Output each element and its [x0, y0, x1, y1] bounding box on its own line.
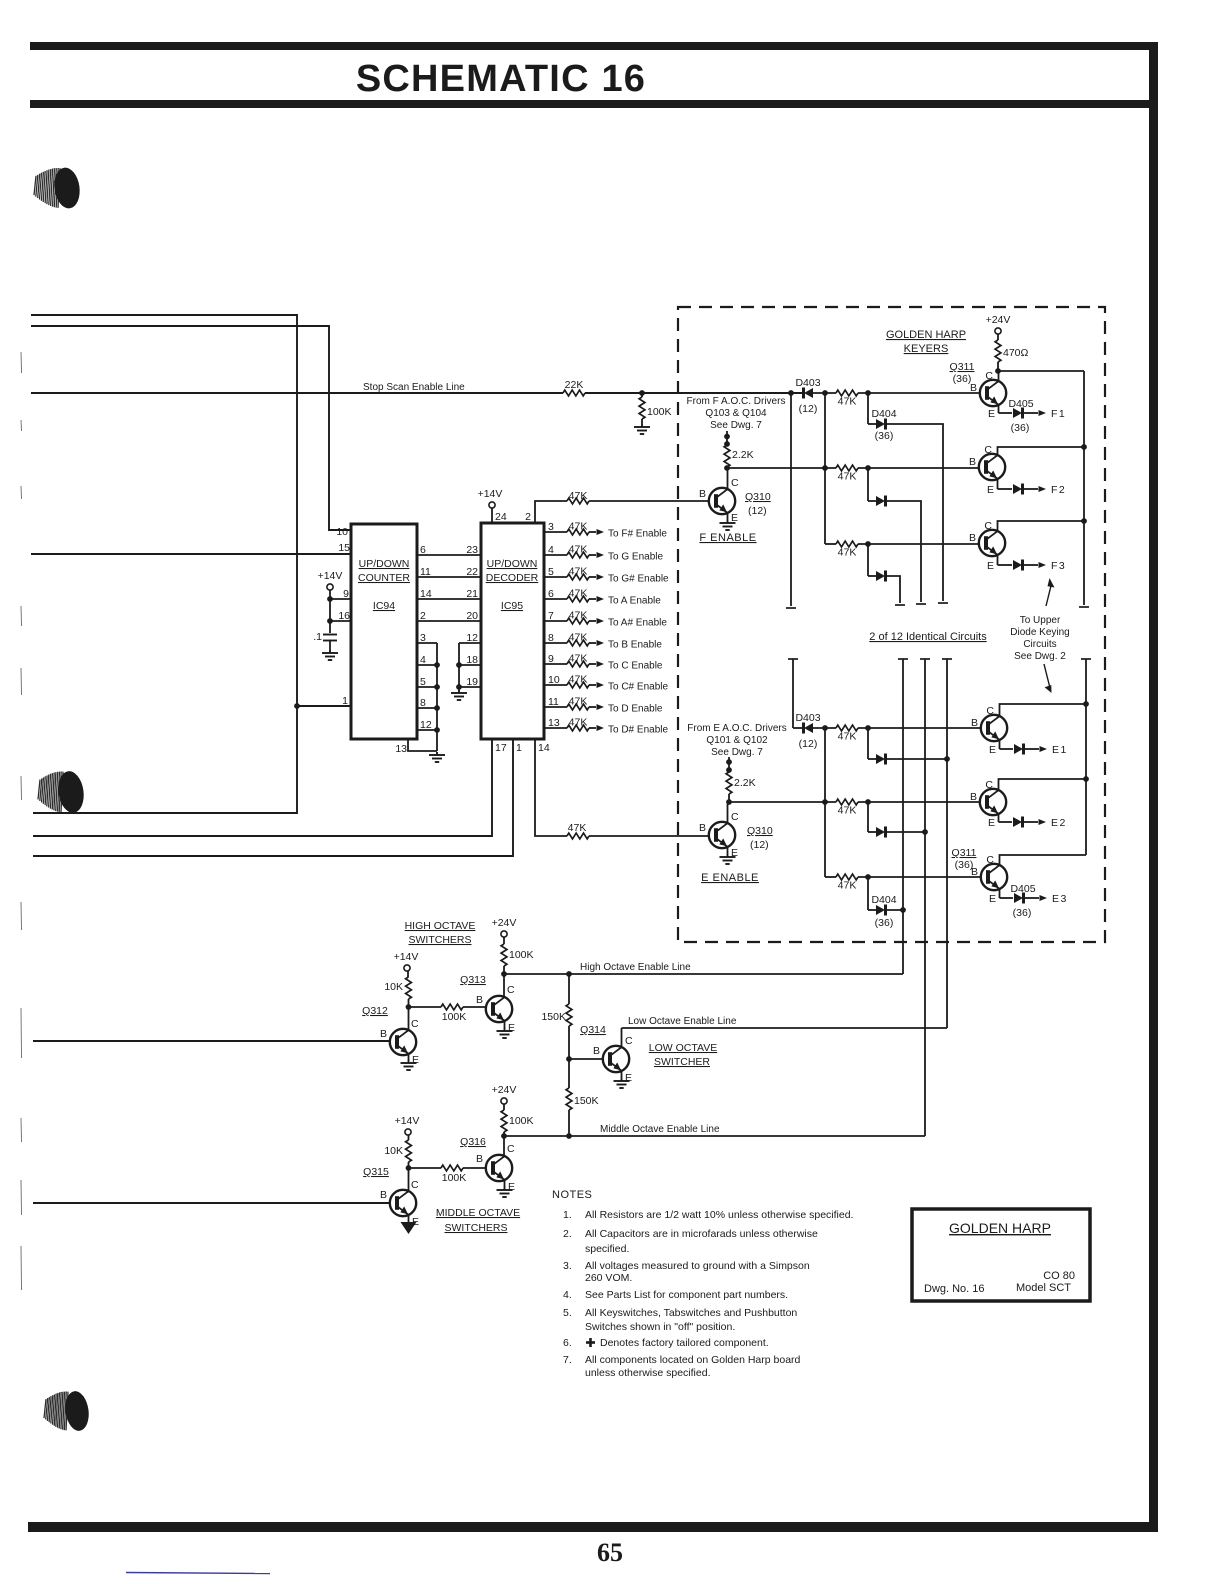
svg-text:47K: 47K — [569, 653, 588, 665]
node junction E1 collector on bus — [1083, 701, 1089, 707]
svg-text:Diode Keying: Diode Keying — [1010, 627, 1069, 638]
svg-text:1: 1 — [516, 742, 522, 754]
svg-text:E: E — [988, 408, 995, 420]
+14V supply at IC95 pin 24 — [478, 488, 507, 523]
node junction 150K top — [566, 971, 572, 977]
E2 emitter diode arrow — [988, 814, 1067, 829]
wire from left to Q315 base — [33, 1202, 390, 1204]
svg-text:1: 1 — [342, 695, 348, 707]
svg-text:21: 21 — [466, 588, 478, 600]
IC94 pin 13 — [395, 739, 437, 755]
svg-text:2.2K: 2.2K — [734, 777, 756, 789]
arrow to lower circuits — [1044, 664, 1052, 693]
wire IC94 pin 1 tap — [297, 705, 351, 707]
label F ENABLE — [699, 532, 756, 544]
svg-text:D405: D405 — [1010, 883, 1035, 895]
+24V supply high octave — [492, 917, 517, 944]
svg-text:C: C — [411, 1018, 419, 1030]
svg-text:100K: 100K — [509, 949, 534, 961]
svg-text:47K: 47K — [838, 547, 857, 559]
svg-text:B: B — [971, 866, 978, 878]
svg-text:B: B — [476, 994, 483, 1006]
svg-text:4: 4 — [420, 654, 426, 666]
resistor 470 ohm — [995, 340, 1028, 362]
+14V supply Q312 — [394, 951, 419, 977]
svg-text:47K: 47K — [838, 805, 857, 817]
svg-text:To G Enable: To G Enable — [608, 552, 663, 563]
svg-text:13: 13 — [548, 717, 560, 729]
IC95 pin 13 enable output To D# Enable — [544, 717, 668, 736]
IC94 pin 16 label — [338, 610, 350, 622]
F3 emitter diode arrow — [987, 555, 1066, 572]
svg-text:F ENABLE: F ENABLE — [699, 532, 756, 544]
+14V supply at IC94 — [318, 570, 343, 633]
svg-text:SWITCHERS: SWITCHERS — [445, 1222, 508, 1234]
node junction before D403 — [788, 390, 794, 396]
node junction F collector node — [724, 465, 730, 471]
wire IC95 pin 2 to Q310 F base — [525, 501, 567, 523]
diode D404 upper — [868, 393, 897, 442]
wire stop scan line to keyer — [585, 392, 803, 394]
Q310 E collector wire — [728, 804, 740, 823]
title block Dwg. No. 16 — [924, 1283, 985, 1295]
svg-text:D404: D404 — [871, 408, 896, 420]
resistor 10K Q315 — [384, 1140, 411, 1162]
transistor keyer E2 — [980, 789, 1006, 815]
svg-text:4.: 4. — [563, 1289, 572, 1301]
svg-text:B: B — [971, 717, 978, 729]
Q314 base label — [593, 1045, 600, 1057]
vertical bus low octave — [946, 659, 948, 1028]
resistor 47K on pin 2 line — [567, 490, 589, 504]
svg-text:20: 20 — [466, 610, 478, 622]
svg-text:3: 3 — [548, 521, 554, 533]
resistor 2.2K upper — [724, 445, 754, 467]
title block box — [912, 1209, 1090, 1301]
svg-text:12: 12 — [420, 719, 432, 731]
title block GOLDEN HARP — [949, 1220, 1051, 1236]
transistor Q310 F enable — [709, 488, 735, 514]
wire bus U-loop from left edge (top line y=315 down at x=297 back at y=813) — [31, 315, 297, 813]
svg-text:65: 65 — [597, 1538, 623, 1567]
svg-text:+14V: +14V — [395, 1115, 420, 1127]
label Q315 — [363, 1166, 389, 1178]
svg-text:B: B — [593, 1045, 600, 1057]
node junction row F2 tap — [822, 465, 828, 471]
Q310 E emitter to ground — [720, 847, 739, 864]
svg-text:D405: D405 — [1008, 398, 1033, 410]
svg-text:9: 9 — [548, 653, 554, 665]
wire IC94 pin 6 to IC95 pin 23 — [417, 544, 481, 556]
svg-text:SCHEMATIC 16: SCHEMATIC 16 — [356, 58, 646, 100]
svg-text:B: B — [380, 1189, 387, 1201]
svg-text:47K: 47K — [568, 822, 587, 834]
svg-text:unless otherwise specified.: unless otherwise specified. — [585, 1367, 710, 1379]
svg-text:24: 24 — [495, 511, 507, 523]
resistor 10K Q312 — [384, 977, 411, 999]
svg-text:+24V: +24V — [492, 917, 517, 929]
svg-text:10: 10 — [336, 526, 348, 538]
svg-text:5: 5 — [548, 566, 554, 578]
svg-text:To A# Enable: To A# Enable — [608, 618, 667, 629]
svg-text:All Keyswitches, Tabswitches a: All Keyswitches, Tabswitches and Pushbut… — [585, 1307, 797, 1319]
svg-text:(12): (12) — [799, 738, 818, 750]
svg-text:47K: 47K — [569, 610, 588, 622]
node junction E2 collector on bus — [1083, 776, 1089, 782]
svg-text:C: C — [411, 1179, 419, 1191]
svg-text:7: 7 — [548, 610, 554, 622]
transistor keyer F3 — [979, 530, 1005, 556]
label From E A.O.C. Drivers — [687, 723, 786, 758]
svg-text:To D Enable: To D Enable — [608, 704, 663, 715]
ground IC94 pin chain — [429, 752, 445, 762]
wire IC94 pin 2 to IC95 pin 20 — [417, 610, 481, 622]
svg-text:See Dwg. 7: See Dwg. 7 — [711, 747, 763, 758]
node junction row E2 tap — [822, 799, 828, 805]
svg-text:DECODER: DECODER — [486, 572, 539, 584]
svg-text:To C# Enable: To C# Enable — [608, 682, 668, 693]
svg-text:2.2K: 2.2K — [732, 449, 754, 461]
resistor 100K high octave — [501, 944, 533, 966]
svg-text:22: 22 — [466, 566, 478, 578]
node junction Q314 base node — [566, 1056, 572, 1062]
continuation ticks lower section — [788, 658, 1091, 660]
node junction E collector node — [726, 799, 732, 805]
Q310 F emitter to ground — [720, 512, 739, 530]
svg-text:100K: 100K — [442, 1011, 467, 1023]
svg-text:15: 15 — [338, 542, 350, 554]
wire diode F3 to bus — [886, 576, 905, 605]
wire row F3 from F bus to Q base — [825, 543, 979, 545]
diode row E2 — [868, 802, 886, 838]
transistor Q310 E enable — [709, 822, 735, 848]
IC95 pin 4 enable output To G Enable — [544, 544, 663, 563]
svg-text:LOW OCTAVE: LOW OCTAVE — [649, 1042, 717, 1054]
IC95 pin 14 wire down to E enable line — [535, 739, 567, 836]
continuation tick — [938, 602, 948, 604]
svg-text:10K: 10K — [384, 1145, 403, 1157]
svg-text:Q101 & Q102: Q101 & Q102 — [706, 735, 768, 746]
svg-text:150K: 150K — [574, 1095, 599, 1107]
IC95 pin 1 label — [516, 742, 522, 754]
svg-text:High Octave Enable Line: High Octave Enable Line — [580, 962, 691, 973]
svg-text:MIDDLE OCTAVE: MIDDLE OCTAVE — [436, 1207, 520, 1219]
resistor 47K row F3 — [836, 541, 858, 558]
svg-text:Switches shown in "off" positi: Switches shown in "off" position. — [585, 1321, 735, 1333]
svg-text:C: C — [507, 984, 515, 996]
svg-text:3: 3 — [420, 632, 426, 644]
svg-text:SWITCHERS: SWITCHERS — [409, 934, 472, 946]
svg-text:To Upper: To Upper — [1020, 615, 1061, 626]
vertical bus to lower D403 — [792, 659, 794, 728]
svg-text:D404: D404 — [871, 894, 896, 906]
svg-text:1.: 1. — [563, 1209, 572, 1221]
node junction F2 collector on bus — [1081, 444, 1087, 450]
svg-text:E ENABLE: E ENABLE — [701, 872, 759, 884]
svg-text:Model SCT: Model SCT — [1016, 1282, 1071, 1294]
svg-text:IC95: IC95 — [501, 600, 523, 612]
capacitor .1 — [313, 631, 337, 650]
svg-text:F2: F2 — [1051, 484, 1066, 496]
resistor 47K row E3 — [836, 874, 858, 891]
svg-text:100K: 100K — [647, 406, 672, 418]
svg-text:100K: 100K — [509, 1115, 534, 1127]
svg-text:(12): (12) — [750, 839, 769, 851]
wire 2.2K to F node — [726, 467, 728, 470]
node junction E1/diode — [865, 725, 871, 731]
svg-text:E1: E1 — [1052, 744, 1068, 756]
resistor 100K Q312-Q313 — [409, 1004, 485, 1023]
title block Model SCT — [1016, 1282, 1071, 1294]
svg-text:47K: 47K — [569, 566, 588, 578]
ground below capacitor — [322, 650, 338, 660]
wire row F2 from F node to Q base — [727, 467, 979, 469]
Q315 emitter ground triangle — [401, 1215, 420, 1234]
diode row F3 — [868, 544, 886, 582]
svg-text:C: C — [731, 477, 739, 489]
svg-text:Q312: Q312 — [362, 1005, 388, 1017]
svg-text:B: B — [969, 456, 976, 468]
resistor 47K row F1 — [836, 390, 858, 407]
wire 47K to Q310 F base — [589, 500, 708, 502]
Q312 base label — [380, 1028, 387, 1040]
svg-text:E2: E2 — [1051, 817, 1067, 829]
svg-text:KEYERS: KEYERS — [904, 343, 949, 355]
svg-text:Circuits: Circuits — [1023, 639, 1056, 650]
node junction after lower D403 — [822, 725, 828, 731]
svg-text:E: E — [987, 560, 994, 572]
svg-text:C: C — [986, 705, 994, 717]
svg-text:+14V: +14V — [318, 570, 343, 582]
wire High Octave Enable Line — [504, 962, 903, 974]
svg-text:B: B — [699, 488, 706, 500]
svg-text:IC94: IC94 — [373, 600, 395, 612]
wire IC94 pin 14 to IC95 pin 21 — [417, 588, 481, 600]
svg-text:Middle Octave Enable Line: Middle Octave Enable Line — [600, 1124, 720, 1135]
svg-text:14: 14 — [538, 742, 550, 754]
resistor 47K row E2 — [836, 799, 858, 816]
svg-text:specified.: specified. — [585, 1243, 629, 1255]
node junction stop scan / 100K — [639, 390, 645, 396]
svg-text:47K: 47K — [838, 471, 857, 483]
IC95 pin 3 enable output To F# Enable — [544, 521, 667, 540]
wire from left to IC95 pin 17 — [33, 739, 492, 836]
svg-text:100K: 100K — [442, 1172, 467, 1184]
wire 47K E1 to base — [858, 727, 981, 729]
IC95 pin 9 enable output To C Enable — [544, 653, 663, 672]
E2 collector wire to bus — [985, 779, 1086, 791]
wire IC94 pin 15 line from left — [31, 553, 351, 555]
svg-text:All Resistors are 1/2 watt 10%: All Resistors are 1/2 watt 10% unless ot… — [585, 1209, 853, 1221]
node junction pin1 tap on x=297 bus — [294, 703, 300, 709]
notes text block — [552, 1189, 853, 1379]
wire IC94 pin 11 to IC95 pin 22 — [417, 566, 481, 578]
wire row E3 from E bus to base — [825, 876, 981, 878]
node junction E2/diode — [865, 799, 871, 805]
svg-text:6.: 6. — [563, 1337, 572, 1349]
IC95 pin 11 enable output To D Enable — [544, 696, 663, 715]
svg-text:47K: 47K — [838, 396, 857, 408]
diode D404 lower — [868, 877, 897, 929]
svg-text:6: 6 — [420, 544, 426, 556]
IC U95 up/down decoder box — [481, 523, 544, 739]
svg-text:GOLDEN HARP: GOLDEN HARP — [949, 1220, 1051, 1236]
arrow to upper circuits — [1046, 578, 1055, 606]
wire diode E2 to middle bus — [886, 829, 928, 835]
svg-text:23: 23 — [466, 544, 478, 556]
svg-text:Q310: Q310 — [747, 825, 773, 837]
svg-text:47K: 47K — [569, 588, 588, 600]
svg-text:47K: 47K — [569, 490, 588, 502]
wire Middle Octave Enable Line — [504, 1124, 925, 1136]
node junction middle line start — [501, 1133, 507, 1139]
svg-text:E: E — [989, 893, 996, 905]
svg-text:All Capacitors are in microfar: All Capacitors are in microfarads unless… — [585, 1228, 818, 1240]
svg-text:(12): (12) — [799, 403, 818, 415]
svg-text:C: C — [507, 1143, 515, 1155]
wire 2.2K to E node — [728, 794, 730, 804]
label E ENABLE — [701, 872, 759, 884]
transistor Q311 keyer F1 — [980, 380, 1006, 406]
node junction Q315 collector node — [406, 1162, 412, 1191]
svg-text:See Dwg. 7: See Dwg. 7 — [710, 420, 762, 431]
F2 collector wire to bus — [984, 444, 1084, 456]
svg-text:14: 14 — [420, 588, 432, 600]
E1 emitter diode arrow — [989, 740, 1068, 756]
wire feed stub lower with dots — [726, 757, 732, 773]
Q310 E base label — [699, 822, 706, 834]
svg-text:E: E — [508, 1181, 515, 1193]
label From F A.O.C. Drivers — [687, 396, 786, 431]
F3 base label — [969, 532, 976, 544]
IC95 pin 6 enable output To A Enable — [544, 588, 661, 607]
svg-text:To D# Enable: To D# Enable — [608, 725, 668, 736]
svg-text:8: 8 — [420, 697, 426, 709]
svg-text:C: C — [731, 811, 739, 823]
svg-text:E: E — [988, 817, 995, 829]
IC94 pin 1 label — [342, 695, 348, 707]
svg-text:E: E — [989, 744, 996, 756]
node junction middle line 150K — [566, 1133, 572, 1139]
label HIGH OCTAVE SWITCHERS — [405, 920, 476, 946]
right collector bus upper — [1079, 371, 1089, 607]
IC95 pin 17 label — [495, 742, 507, 754]
label To Upper Diode Keying Circuits — [1010, 615, 1069, 662]
node junction F3/diode — [865, 541, 871, 547]
right collector bus lower — [1085, 659, 1087, 855]
node junction F1/D404 — [865, 390, 871, 396]
wire diode E1 to low bus — [886, 756, 950, 762]
svg-text:UP/DOWN: UP/DOWN — [487, 558, 538, 570]
diode row E1 — [868, 728, 886, 765]
E3 base label — [971, 866, 978, 878]
resistor 2.2K lower — [726, 772, 756, 794]
ground below 100K — [634, 419, 650, 434]
wire from left to Q312 base — [33, 1040, 390, 1042]
svg-text:470Ω: 470Ω — [1003, 347, 1029, 359]
label Q316 — [460, 1136, 486, 1148]
wire D403 to 47K row E1 — [813, 727, 836, 729]
Q314 emitter ground — [614, 1071, 633, 1088]
Q311 base label — [970, 382, 977, 394]
IC94 title text — [358, 558, 410, 612]
transistor Q313 — [486, 996, 512, 1022]
resistor 100K pulldown — [639, 393, 671, 419]
IC95 title text — [486, 558, 539, 612]
vertical bus E node rows 2,3 — [824, 728, 826, 877]
svg-text:See Parts List for component p: See Parts List for component part number… — [585, 1289, 788, 1301]
wire 47K F1 to Q311 base — [858, 392, 980, 394]
transistor Q314 — [603, 1046, 629, 1072]
Q315 base label — [380, 1189, 387, 1201]
svg-text:47K: 47K — [569, 632, 588, 644]
svg-text:C: C — [985, 779, 993, 791]
svg-text:To G# Enable: To G# Enable — [608, 574, 669, 585]
svg-text:Denotes factory tailored compo: Denotes factory tailored component. — [600, 1337, 769, 1349]
Q314 collector wire to low line — [622, 1028, 634, 1047]
svg-text:E: E — [412, 1054, 419, 1066]
wire row E2 from E node to base — [729, 801, 980, 803]
svg-text:13: 13 — [395, 743, 407, 755]
wire diode F2 to bus — [886, 501, 926, 604]
vertical bus from stop scan node — [786, 393, 796, 608]
svg-text:Dwg. No. 16: Dwg. No. 16 — [924, 1283, 985, 1295]
page edge marks left — [20, 352, 23, 1290]
svg-text:D403: D403 — [795, 712, 820, 724]
svg-text:C: C — [985, 370, 993, 382]
IC95 pin 8 enable output To B Enable — [544, 632, 662, 651]
F2 base label — [969, 456, 976, 468]
transistor Q311 keyer E3 — [981, 864, 1007, 890]
+24V supply middle octave — [492, 1084, 517, 1110]
svg-text:From E A.O.C. Drivers: From E A.O.C. Drivers — [687, 723, 786, 734]
IC94 pin 9 label — [343, 588, 349, 600]
svg-text:10: 10 — [548, 674, 560, 686]
vertical bus middle octave — [924, 659, 926, 1136]
svg-text:C: C — [986, 854, 994, 866]
svg-text:11: 11 — [420, 566, 431, 578]
svg-text:6: 6 — [548, 588, 554, 600]
blue pen mark bottom left — [126, 1573, 270, 1574]
svg-text:Q313: Q313 — [460, 974, 486, 986]
E3 emitter diode D405 arrow — [989, 883, 1068, 919]
Q310 F base label — [699, 488, 706, 500]
svg-text:To F# Enable: To F# Enable — [608, 529, 667, 540]
svg-text:Q310: Q310 — [745, 491, 771, 503]
transistor Q316 — [486, 1155, 512, 1181]
svg-text:17: 17 — [495, 742, 507, 754]
Q316 base label — [476, 1153, 483, 1165]
label LOW OCTAVE SWITCHER — [649, 1042, 717, 1068]
svg-text:18: 18 — [466, 654, 478, 666]
svg-text:5.: 5. — [563, 1307, 572, 1319]
label Q311 (36) lower — [952, 847, 977, 871]
svg-text:E: E — [625, 1072, 632, 1084]
node junction F2/diode — [865, 465, 871, 471]
resistor 47K row F2 — [836, 465, 858, 482]
Q312 collector label — [411, 1018, 419, 1030]
Q312 emitter ground — [401, 1054, 420, 1070]
+14V supply Q315 — [395, 1115, 420, 1140]
svg-text:47K: 47K — [569, 717, 588, 729]
svg-text:All voltages measured to groun: All voltages measured to ground with a S… — [585, 1260, 810, 1272]
svg-text:+14V: +14V — [478, 488, 503, 500]
ground IC95 pin chain — [451, 690, 467, 700]
wire Low Octave Enable Line — [622, 1016, 948, 1028]
node junction E3/diode — [865, 874, 871, 880]
node junction +14V to pin 9 — [327, 596, 351, 602]
svg-text:47K: 47K — [569, 544, 588, 556]
